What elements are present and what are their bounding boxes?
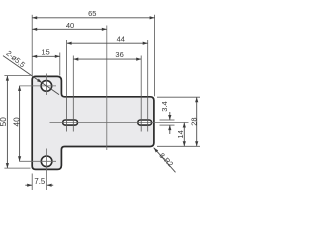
extension line 50 bottom <box>4 167 30 169</box>
part outline (bracket plate) <box>32 76 154 169</box>
dimension line 50 <box>6 76 8 169</box>
dimension line 3.4 lower segment <box>169 125 171 134</box>
dimension line 3.4 upper segment <box>169 112 171 120</box>
extension line 36 right <box>140 56 142 132</box>
svg-text:65: 65 <box>88 9 96 18</box>
arrow 15 right <box>55 55 60 58</box>
arrow 7.5 left <box>27 184 32 187</box>
arrow 14 bottom <box>183 141 186 146</box>
dimension line 40 top <box>32 28 107 30</box>
arrow 3.4 lower <box>168 125 171 130</box>
svg-text:14: 14 <box>176 130 185 138</box>
dimension line 28 <box>196 97 198 146</box>
arrow 65 left <box>32 16 37 19</box>
dimension line 36 <box>73 58 141 60</box>
arrow 7.5 right <box>47 184 52 187</box>
svg-text:36: 36 <box>115 50 123 59</box>
arrow 14 top <box>183 123 186 128</box>
arrow 50 top <box>6 76 9 81</box>
extension line left edge top <box>31 15 33 76</box>
centerline top hole horizontal <box>19 85 56 87</box>
extension line 44 left <box>66 40 68 132</box>
arrow 28 bottom <box>195 141 198 146</box>
arrow 15 left <box>32 55 37 58</box>
arrow 40 top left <box>32 28 37 31</box>
dimension line 7.5 left segment <box>25 184 32 186</box>
leader line 8-R2 <box>154 148 176 173</box>
arrow 50 bottom <box>6 163 9 168</box>
arrow 3.4 upper <box>168 115 171 120</box>
extension line 65 right <box>154 15 156 96</box>
svg-text:15: 15 <box>41 47 49 56</box>
centerline slot pattern vertical <box>106 26 108 151</box>
extension line 36 left <box>72 56 74 132</box>
hole top (2-dia5.5) <box>41 81 52 92</box>
hole bottom (2-dia5.5) <box>41 156 52 167</box>
arrow 36 left <box>73 58 78 61</box>
arrow 44 right <box>143 42 148 45</box>
centerline slots horizontal <box>50 122 189 124</box>
arrow 40 top right <box>102 28 107 31</box>
svg-text:3.4: 3.4 <box>160 101 169 111</box>
extension line 50 top <box>4 75 30 77</box>
arrow leader 2-dia5.5 <box>37 79 42 83</box>
svg-text:50: 50 <box>0 117 8 127</box>
arrow 28 top <box>195 97 198 102</box>
dimension line 14 <box>183 123 185 147</box>
dimension line 15 <box>32 55 60 57</box>
svg-text:28: 28 <box>190 117 199 125</box>
extension line 15 right <box>59 53 61 76</box>
svg-text:7.5: 7.5 <box>34 177 46 186</box>
dimension line 65 <box>32 17 154 19</box>
centerline bottom hole horizontal <box>19 160 56 162</box>
arrow 44 left <box>67 42 72 45</box>
slot right <box>138 120 152 125</box>
arrow 40 left top <box>18 86 21 91</box>
dimension line 44 <box>67 42 148 44</box>
extension line 44 right <box>147 40 149 132</box>
arrow 65 right <box>150 16 155 19</box>
extension line 7.5 left <box>31 174 33 191</box>
extension line bottom edge right (14/28) <box>157 145 200 147</box>
extension line slot bottom (3.4) <box>160 124 175 126</box>
svg-text:40: 40 <box>13 117 22 127</box>
arrow leader 8-R2 <box>154 148 159 153</box>
slot left <box>63 120 78 125</box>
svg-text:44: 44 <box>117 34 125 43</box>
centerline top hole vertical <box>45 74 47 96</box>
leader line 2-dia5.5 <box>3 56 59 95</box>
centerline bottom hole vertical <box>46 149 48 191</box>
extension line 28 top <box>157 96 200 98</box>
arrow 36 right <box>136 58 141 61</box>
dimension line 7.5 right segment <box>47 184 54 186</box>
svg-text:40: 40 <box>66 21 74 30</box>
arrow 40 left bottom <box>18 156 21 161</box>
dimension line 40 left <box>19 86 21 161</box>
extension line slot top (3.4) <box>160 119 175 121</box>
